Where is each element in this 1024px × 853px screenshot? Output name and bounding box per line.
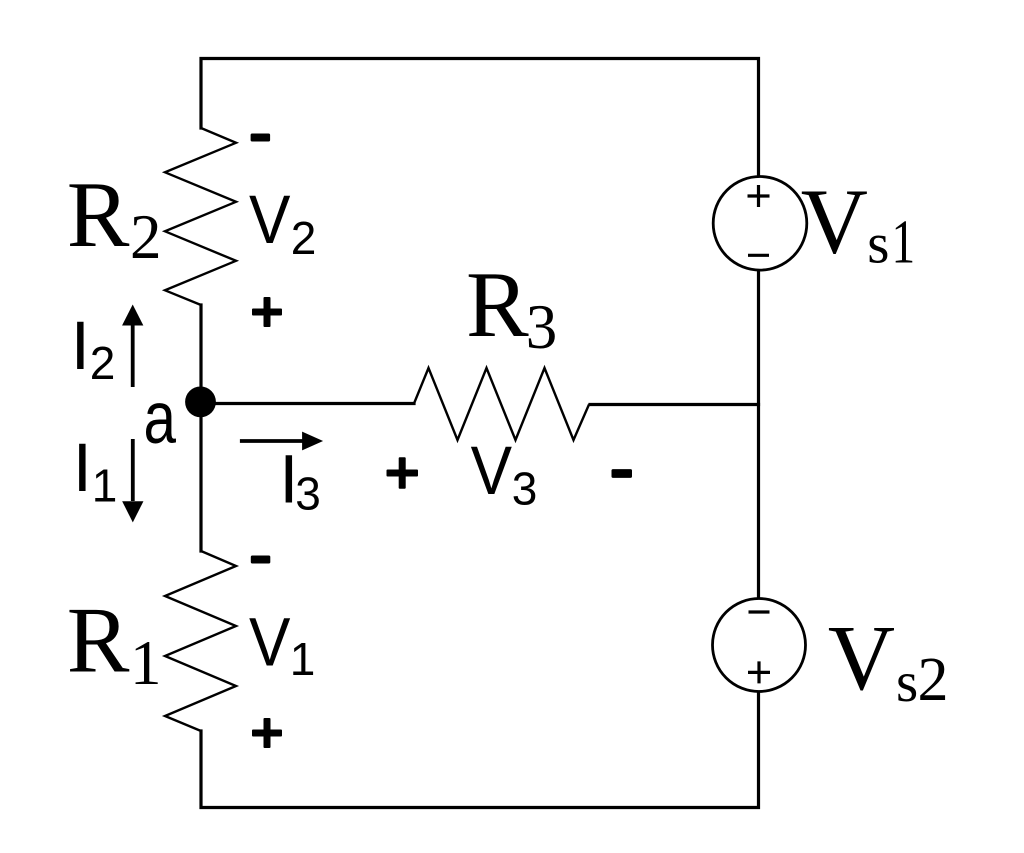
- svg-text:s: s: [867, 213, 889, 276]
- svg-text:1: 1: [892, 207, 916, 277]
- svg-text:1: 1: [130, 628, 162, 698]
- svg-text:R: R: [67, 588, 130, 692]
- svg-text:V: V: [249, 603, 291, 680]
- svg-text:I: I: [73, 429, 92, 506]
- svg-text:2: 2: [130, 202, 162, 272]
- svg-text:V: V: [471, 432, 513, 509]
- svg-text:R: R: [466, 253, 529, 357]
- svg-text:V: V: [801, 171, 868, 274]
- svg-text:s: s: [896, 651, 918, 714]
- svg-text:2: 2: [291, 212, 317, 264]
- svg-text:3: 3: [512, 463, 538, 515]
- svg-text:V: V: [828, 607, 895, 710]
- svg-text:3: 3: [295, 468, 321, 520]
- svg-text:V: V: [249, 181, 291, 258]
- svg-text:1: 1: [290, 633, 316, 685]
- svg-text:I: I: [71, 307, 90, 384]
- svg-text:3: 3: [526, 292, 558, 362]
- svg-text:R: R: [67, 163, 130, 267]
- svg-text:1: 1: [92, 459, 118, 511]
- svg-text:2: 2: [918, 646, 949, 714]
- svg-text:2: 2: [90, 337, 116, 389]
- svg-text:a: a: [144, 378, 177, 460]
